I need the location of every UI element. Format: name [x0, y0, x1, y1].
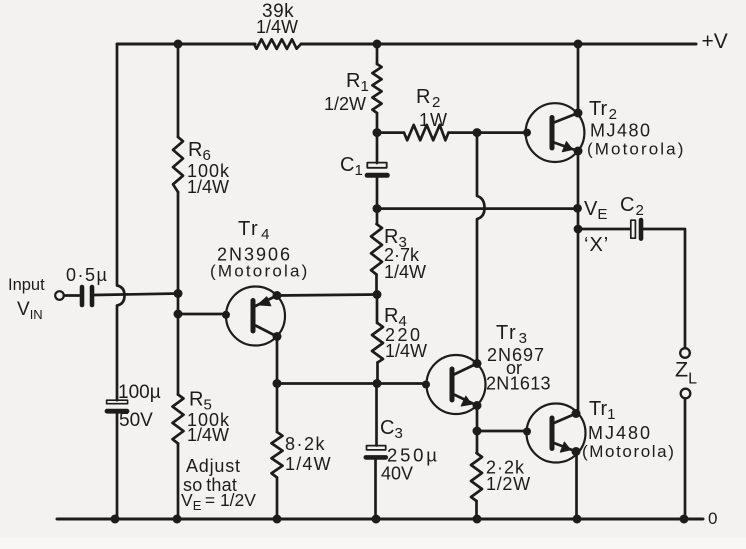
label 250u (C3)	[387, 445, 440, 466]
label Input	[8, 276, 45, 294]
capacitor 100u 50V	[107, 400, 128, 411]
wire Tr4 collector to Tr3 base	[277, 381, 430, 389]
node input junction	[174, 289, 183, 298]
label or (Tr3)	[506, 358, 522, 378]
label 2N1613 (Tr3)	[486, 374, 551, 394]
label 100u	[118, 382, 161, 403]
label 1/4W (R3)	[384, 262, 426, 282]
svg-text:100µ: 100µ	[118, 382, 161, 403]
resistor 39k 1/4W	[254, 39, 301, 49]
wire C2 to load branch	[644, 229, 686, 348]
load terminal upper	[680, 348, 690, 358]
label 100k (R5)	[187, 410, 230, 430]
label 0.5u	[66, 265, 108, 285]
svg-text:250µ: 250µ	[387, 445, 440, 466]
node ground/left cap	[111, 515, 120, 524]
svg-text:0·5µ: 0·5µ	[66, 265, 108, 285]
label R1	[346, 70, 369, 95]
label 8.2k	[285, 434, 326, 454]
wire to Tr4 base	[178, 311, 230, 319]
label so that	[183, 475, 237, 495]
label +V	[702, 30, 728, 53]
resistor R1 1/2W	[372, 64, 381, 113]
node Tr2 collector on rail	[574, 40, 583, 49]
wire Tr2 emitter down to Tr1 collector	[577, 151, 580, 414]
label Adjust	[186, 456, 241, 476]
label 1/4W (39k)	[256, 17, 298, 37]
svg-text:0: 0	[708, 509, 717, 528]
wire lower load terminal to ground rail	[684, 399, 687, 520]
label 2N3906 (Tr4)	[217, 245, 292, 265]
svg-text:MJ480: MJ480	[588, 423, 652, 443]
wire left +V branch (hops over input wire)	[117, 44, 125, 400]
wire C 0.5u to R6/R5 node	[95, 294, 178, 296]
label 40V (C3)	[381, 464, 413, 484]
svg-text:(Motorola): (Motorola)	[587, 140, 685, 159]
node Tr4 emitter	[273, 291, 282, 300]
input terminal	[55, 291, 64, 300]
label C3	[380, 417, 403, 442]
node ground/Tr1 emitter	[573, 515, 582, 524]
node R2 left junction	[373, 128, 382, 137]
node ground/2.2k	[473, 515, 482, 524]
label 100k (R6)	[187, 161, 230, 181]
wire Tr3 emitter down to 2.2k and Tr1 base junction	[476, 406, 479, 454]
label 2N697 (Tr3)	[487, 345, 545, 365]
svg-text:1W: 1W	[419, 110, 448, 130]
label 'X'	[584, 234, 609, 256]
node ground/C3	[372, 515, 381, 524]
label R6	[188, 139, 211, 164]
wire C1 to VE wire	[376, 178, 379, 209]
svg-text:1/4W: 1/4W	[285, 454, 332, 474]
svg-text:MJ480: MJ480	[590, 121, 652, 141]
wire ground rail	[57, 518, 703, 521]
node Tr2 collector	[574, 109, 583, 118]
node R1 top on rail	[373, 40, 382, 49]
svg-text:VE = 1/2V: VE = 1/2V	[181, 490, 256, 513]
svg-text:1/2W: 1/2W	[324, 94, 366, 114]
node Tr1 emitter	[572, 447, 581, 456]
transistor Tr1 MJ480	[527, 404, 586, 463]
label 1/4W (R6)	[187, 177, 229, 197]
label MJ480 (Tr1)	[588, 423, 652, 443]
transistor Tr4 2N3906	[226, 287, 285, 346]
svg-text:1/4W: 1/4W	[187, 425, 229, 445]
label 50V	[119, 410, 153, 431]
capacitor C2	[631, 220, 641, 239]
label 39k	[262, 1, 294, 22]
node ground/8.2k	[273, 515, 282, 524]
label Tr1	[589, 398, 615, 423]
svg-text:‘X’: ‘X’	[584, 234, 609, 256]
svg-text:1/4W: 1/4W	[385, 341, 427, 361]
capacitor C1	[367, 163, 387, 176]
wire VE horizontal	[377, 207, 578, 210]
label 0 (ground)	[708, 509, 717, 528]
label Tr3	[496, 322, 528, 347]
capacitor 0.5u input	[82, 287, 92, 305]
node Tr1 base wire junction	[473, 427, 482, 436]
label ZL	[675, 358, 697, 388]
svg-text:1/4W: 1/4W	[384, 262, 426, 282]
node Tr3 collector	[473, 359, 482, 368]
resistor 2.2k 1/2W	[471, 453, 482, 519]
resistor R6 100k 1/4W	[173, 137, 183, 192]
label 1/4W (R5)	[187, 425, 229, 445]
label R5	[189, 389, 212, 414]
wire to Tr1 base	[477, 428, 531, 436]
transistor Tr3 2N697/2N1613	[427, 355, 486, 414]
svg-text:Adjust: Adjust	[186, 456, 241, 476]
wire R1 to C1/R2 node	[376, 113, 379, 163]
label VE	[584, 198, 607, 223]
label (Motorola) (Tr2)	[587, 140, 685, 159]
svg-text:8·2k: 8·2k	[285, 434, 326, 454]
label Tr2	[589, 98, 617, 123]
resistor R5 100k 1/4W	[173, 395, 184, 444]
wire Tr4 emitter to R3/R4 node	[277, 295, 377, 296]
wire Tr1 emitter to ground rail	[575, 452, 578, 520]
label MJ480 (Tr2)	[590, 121, 652, 141]
svg-text:+V: +V	[702, 30, 728, 53]
node 'X'	[574, 225, 583, 234]
resistor R2 1W	[377, 125, 527, 140]
node C1 bottom / VE wire left	[373, 204, 382, 213]
label 1/2W (2.2k)	[486, 474, 531, 494]
wire X node to C2	[578, 228, 630, 231]
wire R1 branch from +V	[376, 44, 379, 64]
label (Motorola) (Tr4)	[210, 262, 309, 281]
node R2 right / Tr3 collector branch	[473, 128, 482, 137]
node ground/R5	[173, 515, 182, 524]
label R3	[384, 226, 407, 251]
load terminal lower	[681, 389, 691, 399]
node Tr2 emitter	[574, 147, 583, 156]
wire input terminal to C 0.5u	[64, 294, 79, 297]
node Tr4 collector / 8.2k junction	[273, 379, 282, 388]
wire Tr4 collector down	[276, 337, 279, 384]
label 2.2k	[486, 458, 525, 478]
node base-wire junction	[174, 310, 183, 319]
label 2.7k (R3)	[384, 245, 420, 265]
svg-text:1/4W: 1/4W	[256, 17, 298, 37]
transistor Tr2 MJ480	[526, 103, 585, 162]
resistor R4 220 1/4W	[372, 295, 383, 384]
label R2	[416, 86, 440, 111]
label Tr4	[238, 218, 271, 243]
svg-text:(Motorola): (Motorola)	[582, 442, 675, 461]
resistor R3 2.7k 1/4W	[371, 209, 382, 295]
wire Tr3 collector vertical (hops over VE wire)	[477, 133, 485, 364]
node Tr3 emitter	[473, 401, 482, 410]
label 1/4W (R4)	[385, 341, 427, 361]
label C1	[340, 154, 363, 179]
node VE	[573, 204, 582, 213]
svg-text:50V: 50V	[119, 410, 153, 431]
wire 100u cap to ground rail	[116, 414, 119, 519]
wire +V top rail	[117, 43, 696, 46]
label 1W (R2)	[419, 110, 448, 130]
label 220 (R4)	[385, 325, 423, 345]
svg-text:2N1613: 2N1613	[486, 374, 551, 394]
resistor 8.2k 1/4W	[272, 384, 283, 520]
label (Motorola) (Tr1)	[582, 442, 675, 461]
label 1/4W (8.2k)	[285, 454, 332, 474]
node R6 top on rail	[174, 40, 183, 49]
svg-text:1/2W: 1/2W	[486, 474, 531, 494]
capacitor C3 250u 40V	[366, 384, 386, 520]
node R4 bottom / C3 top junction	[373, 379, 382, 388]
label VE = 1/2V	[181, 490, 256, 513]
wire R6 branch vertical	[177, 44, 180, 519]
label VIN	[17, 299, 43, 322]
node Tr4 collector	[273, 332, 282, 341]
node ground/load	[680, 515, 689, 524]
node R3/R4 junction (Tr4 emitter wire)	[373, 290, 382, 299]
label C2	[620, 194, 644, 219]
wire Tr2 collector to +V rail	[577, 44, 580, 113]
svg-text:40V: 40V	[381, 464, 413, 484]
svg-text:Input: Input	[8, 276, 45, 294]
label R4	[384, 305, 407, 330]
node Tr2 base	[523, 129, 531, 137]
label 1/2W (R1)	[324, 94, 366, 114]
node Tr1 collector	[572, 409, 581, 418]
svg-text:(Motorola): (Motorola)	[210, 262, 309, 281]
svg-text:1/4W: 1/4W	[187, 177, 229, 197]
